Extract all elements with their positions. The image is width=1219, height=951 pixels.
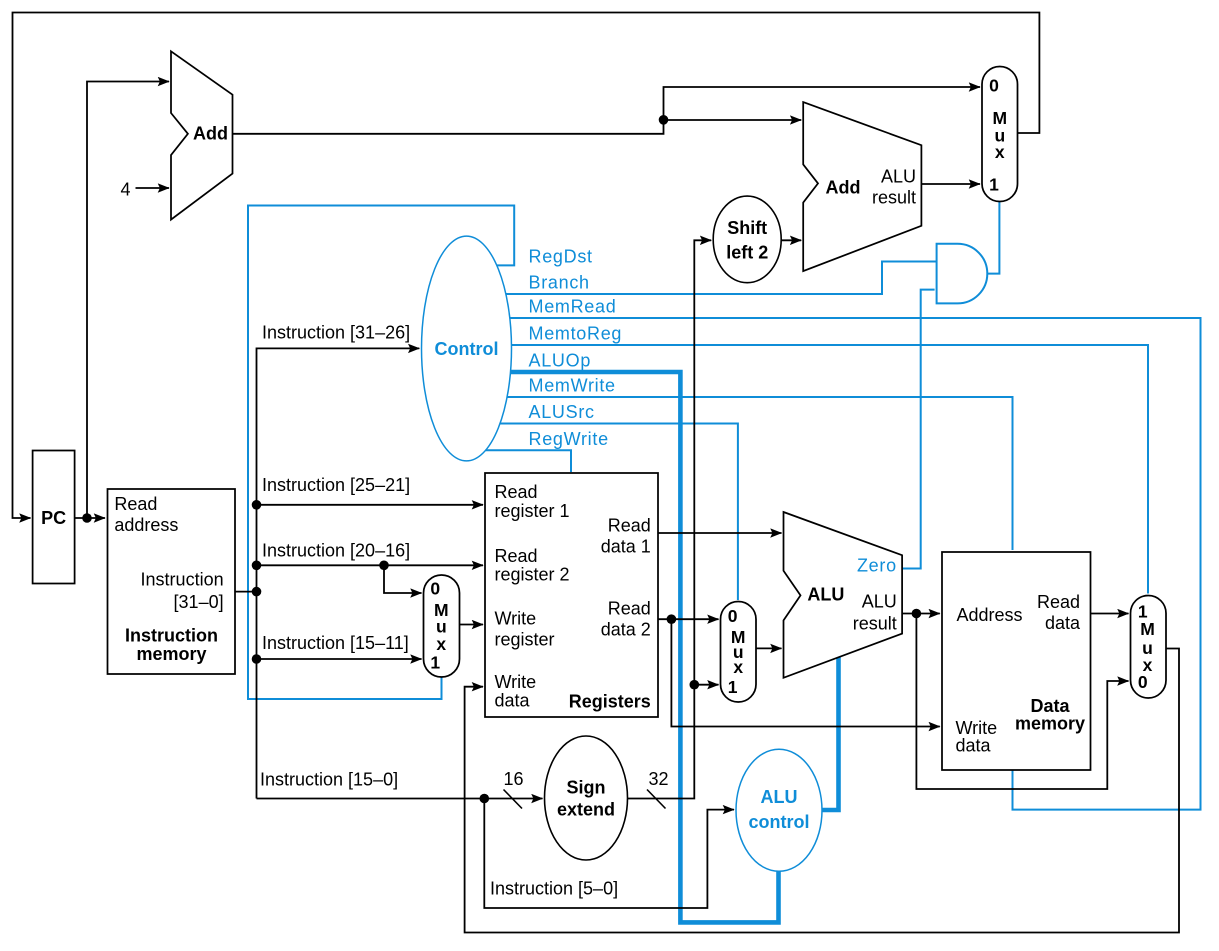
svg-text:Branch: Branch bbox=[529, 273, 590, 293]
svg-text:memory: memory bbox=[136, 644, 206, 664]
svg-text:MemtoReg: MemtoReg bbox=[529, 324, 623, 344]
svg-text:data: data bbox=[956, 736, 992, 756]
svg-text:MemRead: MemRead bbox=[529, 297, 617, 317]
svg-text:data 1: data 1 bbox=[601, 537, 651, 557]
svg-text:memory: memory bbox=[1015, 714, 1085, 734]
svg-text:ALUOp: ALUOp bbox=[529, 351, 592, 371]
svg-text:x: x bbox=[733, 657, 743, 677]
svg-text:1: 1 bbox=[430, 653, 440, 673]
svg-text:ALU: ALU bbox=[862, 591, 897, 611]
svg-text:register 1: register 1 bbox=[495, 501, 570, 521]
svg-text:Read: Read bbox=[114, 494, 157, 514]
svg-text:Read: Read bbox=[495, 546, 538, 566]
svg-text:data: data bbox=[495, 691, 531, 711]
svg-text:RegDst: RegDst bbox=[529, 247, 593, 267]
svg-text:Control: Control bbox=[435, 339, 499, 359]
svg-text:M: M bbox=[1140, 619, 1155, 639]
svg-text:Instruction [15–11]: Instruction [15–11] bbox=[262, 633, 409, 653]
svg-text:Address: Address bbox=[957, 605, 1023, 625]
svg-text:Sign: Sign bbox=[567, 778, 606, 798]
svg-text:16: 16 bbox=[503, 769, 523, 789]
svg-text:Instruction: Instruction bbox=[125, 625, 218, 645]
svg-text:0: 0 bbox=[430, 579, 440, 599]
svg-text:ALU: ALU bbox=[761, 787, 798, 807]
svg-text:Read: Read bbox=[495, 482, 538, 502]
svg-text:Instruction [5–0]: Instruction [5–0] bbox=[490, 879, 618, 899]
svg-text:Instruction [25–21]: Instruction [25–21] bbox=[262, 475, 410, 495]
svg-text:1: 1 bbox=[728, 677, 738, 697]
svg-text:0: 0 bbox=[989, 76, 999, 96]
svg-text:Shift: Shift bbox=[727, 218, 767, 238]
svg-text:0: 0 bbox=[1138, 672, 1148, 692]
svg-text:result: result bbox=[872, 187, 916, 207]
svg-text:PC: PC bbox=[41, 508, 66, 528]
svg-text:MemWrite: MemWrite bbox=[529, 376, 616, 396]
svg-text:Instruction [31–26]: Instruction [31–26] bbox=[262, 323, 410, 343]
svg-text:Add: Add bbox=[826, 178, 861, 198]
svg-text:Instruction [20–16]: Instruction [20–16] bbox=[262, 541, 410, 561]
svg-text:RegWrite: RegWrite bbox=[529, 429, 609, 449]
svg-text:Instruction: Instruction bbox=[141, 570, 224, 590]
svg-text:register: register bbox=[495, 629, 555, 649]
svg-text:address: address bbox=[114, 515, 178, 535]
svg-text:1: 1 bbox=[989, 175, 999, 195]
svg-text:Write: Write bbox=[495, 609, 537, 629]
svg-text:data 2: data 2 bbox=[601, 620, 651, 640]
svg-text:Zero: Zero bbox=[857, 556, 897, 576]
svg-text:4: 4 bbox=[120, 180, 130, 200]
svg-text:Write: Write bbox=[495, 672, 537, 692]
svg-text:ALU: ALU bbox=[881, 166, 916, 186]
svg-text:control: control bbox=[749, 812, 810, 832]
svg-text:ALUSrc: ALUSrc bbox=[529, 402, 595, 422]
svg-text:x: x bbox=[436, 634, 446, 654]
svg-text:Registers: Registers bbox=[569, 692, 651, 712]
svg-text:x: x bbox=[995, 142, 1005, 162]
svg-text:Read: Read bbox=[608, 599, 651, 619]
svg-text:ALU: ALU bbox=[807, 584, 844, 604]
svg-text:data: data bbox=[1045, 613, 1081, 633]
svg-text:result: result bbox=[853, 613, 897, 633]
svg-text:[31–0]: [31–0] bbox=[174, 592, 224, 612]
svg-text:32: 32 bbox=[648, 769, 668, 789]
svg-text:Read: Read bbox=[608, 516, 651, 536]
svg-text:Instruction [15–0]: Instruction [15–0] bbox=[260, 770, 398, 790]
svg-text:0: 0 bbox=[728, 606, 738, 626]
svg-text:Read: Read bbox=[1037, 592, 1080, 612]
svg-text:left 2: left 2 bbox=[726, 243, 768, 263]
svg-text:Add: Add bbox=[193, 124, 228, 144]
svg-text:register 2: register 2 bbox=[495, 565, 570, 585]
svg-text:extend: extend bbox=[557, 800, 615, 820]
